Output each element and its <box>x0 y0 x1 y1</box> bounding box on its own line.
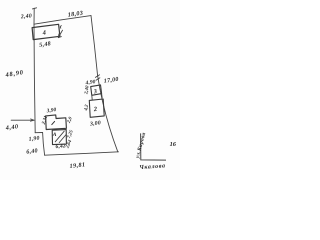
connector shed3 to shed2 <box>92 94 102 100</box>
veranda A outline <box>52 130 66 145</box>
house 1 outline <box>46 115 67 130</box>
parcel right boundary lower <box>98 76 118 152</box>
shed 3 outline <box>91 85 102 95</box>
parcel left lower segment 6.40 <box>43 133 45 156</box>
street corner L symbol <box>141 133 166 160</box>
house 4 outline <box>32 24 60 39</box>
survey tick 2 at bend <box>96 78 100 80</box>
parcel bottom boundary 19.81 <box>45 152 119 155</box>
parcel step segment 1.90 <box>35 132 42 134</box>
leader line for 4.40 <box>11 119 34 121</box>
survey tick at bend <box>95 75 99 78</box>
parcel right boundary upper <box>91 16 98 76</box>
parcel left boundary 48.90 <box>34 24 35 133</box>
porch arrow right of house 4 <box>58 26 62 38</box>
fence line above top-left corner <box>33 8 35 24</box>
parcel top boundary 18.03 <box>34 16 91 25</box>
svg-text:2,40: 2,40 <box>20 13 33 20</box>
tick at top of fence line <box>32 8 36 9</box>
shed 2 outline <box>89 99 104 117</box>
svg-text:А: А <box>52 132 57 138</box>
house 1 label <box>52 121 55 124</box>
veranda A hatch <box>55 131 66 142</box>
arrowhead of leader <box>30 119 34 121</box>
svg-text:16: 16 <box>170 141 177 148</box>
